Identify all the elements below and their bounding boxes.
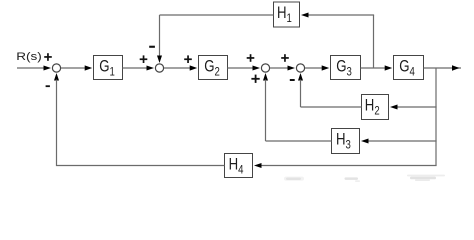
arrowhead into G3	[322, 65, 330, 70]
wire tap to H4 input	[260, 165, 437, 167]
wire H1 output to left	[160, 14, 274, 16]
sign + at S2 input	[140, 55, 148, 63]
watermark smudge 1	[284, 177, 304, 181]
wire H3 output to S3	[266, 140, 332, 142]
node tap to H1 between G3 and G4	[373, 15, 375, 68]
wire S1 to G1	[61, 67, 87, 69]
arrowhead into H1 right side	[301, 13, 309, 18]
node R(s) input label	[16, 50, 42, 62]
arrowhead into S2 from left	[147, 66, 155, 71]
block H4	[225, 154, 253, 178]
arrowhead into G2	[190, 65, 198, 70]
arrowhead into S4 from left	[288, 66, 296, 71]
arrowhead into S1 from left	[44, 66, 52, 71]
wire H1 output down into S2	[159, 15, 161, 56]
wire S4 to G3	[305, 67, 324, 69]
arrowhead output	[452, 65, 460, 71]
wire top from tap to H1 input	[307, 14, 374, 16]
summing junction S1	[52, 64, 60, 72]
block G1	[94, 56, 123, 80]
arrowhead into G4	[385, 65, 393, 70]
wire G1 to summing junction S2	[123, 67, 148, 69]
block G3	[331, 56, 361, 80]
summing junction S4	[296, 64, 304, 72]
summing junction S2	[155, 64, 163, 72]
wire G3 to G4	[361, 67, 388, 69]
arrowhead into H3 right side	[361, 139, 369, 144]
sign + at S3 input	[247, 54, 255, 62]
arrowhead into H4 right side	[254, 163, 262, 168]
sign - at S2 feedback input from H1	[149, 46, 155, 48]
block G2	[199, 56, 228, 80]
block H3	[332, 129, 360, 154]
sign + before G2	[184, 55, 192, 63]
wire S3 to summing junction S4	[270, 67, 288, 69]
arrowhead into S3 from left	[253, 66, 261, 71]
svg-text:R(s): R(s)	[16, 50, 42, 62]
arrowhead into S4 from below	[298, 73, 303, 81]
wire input R(s) to summing junction S1	[17, 67, 48, 69]
summing junction S3	[261, 64, 269, 72]
wire G4 to output	[424, 67, 462, 69]
wire tap to H2 input	[396, 106, 437, 108]
wire H2 output up into S4	[300, 80, 302, 108]
wire H4 output to S1	[57, 80, 225, 166]
sign + at S3 feedback input from H3	[251, 75, 259, 83]
wire S2 to G2	[164, 67, 192, 69]
sign - at S1 feedback input	[46, 85, 50, 87]
node tap after G4 down to feedback paths	[435, 68, 437, 166]
block H2	[362, 95, 389, 120]
sign - at S4 feedback input from H2	[290, 79, 295, 81]
wire tap to H3 input	[367, 140, 437, 142]
wire G2 to summing junction S3	[228, 67, 254, 69]
watermark smudge 3	[407, 175, 445, 181]
block H1	[274, 2, 300, 27]
sign + at S1 input	[44, 53, 52, 61]
arrowhead into S2 from above	[157, 56, 162, 64]
wire H3 output up into S3	[265, 80, 267, 142]
watermark smudge 2	[345, 177, 361, 182]
arrowhead into S1 from below	[54, 73, 59, 81]
arrowhead into H2 right side	[390, 105, 398, 110]
block G4	[394, 56, 424, 80]
arrowhead into G1	[85, 65, 93, 70]
arrowhead into S3 from below	[263, 73, 268, 81]
sign + at S4 input	[281, 54, 289, 62]
wire H2 output to S4	[301, 106, 362, 108]
